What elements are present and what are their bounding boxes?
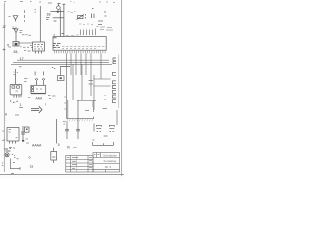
svg-text:1: 1 [20,103,22,107]
svg-text:18: 18 [46,13,50,17]
svg-text:AAAA: AAAA [32,143,42,147]
svg-text:S-catalog: S-catalog [104,159,117,163]
svg-text:Bl. 3: Bl. 3 [105,165,111,169]
svg-text:5: 5 [58,143,60,147]
svg-text:84,: 84, [14,50,19,54]
svg-text:...: ... [14,100,17,104]
svg-text:Schaltplan: Schaltplan [103,153,117,157]
svg-text::: : [6,118,7,122]
svg-text:1a: 1a [30,164,34,168]
svg-text:8: 8 [5,113,7,117]
svg-text:17: 17 [20,57,24,61]
svg-text:AAA: AAA [36,97,44,101]
svg-text:th: th [67,146,70,150]
